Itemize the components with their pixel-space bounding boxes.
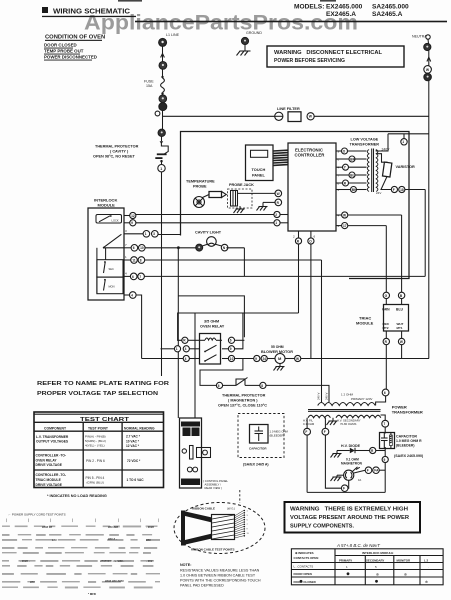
svg-text:5(GRN) - (BLU): 5(GRN) - (BLU) [85,439,106,443]
svg-text:1: 1 [247,511,249,513]
svg-text:MODULE: MODULE [98,203,116,208]
svg-text:BLU: BLU [396,308,404,312]
svg-text:SA2465.000: SA2465.000 [372,4,409,11]
svg-text:3: 3 [153,232,155,236]
svg-text:(SA/EX 2465 A): (SA/EX 2465 A) [243,463,269,467]
svg-text:RESISTANCE VALUES MEASURE LESS: RESISTANCE VALUES MEASURE LESS THAN [180,569,260,573]
svg-text:1.0 MEG OHM R: 1.0 MEG OHM R [396,439,422,443]
svg-text:7: 7 [139,275,141,279]
svg-text:10 VAC *: 10 VAC * [126,439,140,443]
svg-text:9: 9 [230,347,232,351]
svg-text:F: F [305,430,307,434]
svg-text:###: ### [146,538,151,542]
svg-text:PANEL PAD DEPRESSED: PANEL PAD DEPRESSED [180,584,224,588]
svg-text:1: 1 [176,347,178,351]
svg-text:PROBE JACK: PROBE JACK [229,183,254,187]
svg-text:(BLEEDER): (BLEEDER) [396,444,414,448]
svg-text:BLOWER MOTOR: BLOWER MOTOR [261,350,293,354]
svg-text:### # ..: ### # .. [108,537,118,541]
svg-text:4: 4 [131,293,133,297]
svg-text:· ####: · #### [146,525,154,529]
svg-text:LOW VOLTAGE: LOW VOLTAGE [351,138,379,142]
svg-text:⊕ INDICATES: ⊕ INDICATES [295,551,314,555]
svg-text:DRIVE VOLTAGE: DRIVE VOLTAGE [36,483,63,487]
svg-text:PROPER VOLTAGE TAP SELECTION: PROPER VOLTAGE TAP SELECTION [37,391,158,397]
svg-text:RIBBON CABLE TEST POINTS: RIBBON CABLE TEST POINTS [191,548,235,552]
svg-text:DOOR OPEN: DOOR OPEN [294,572,312,576]
svg-text:SEC: SEC [109,267,114,271]
svg-text:PIN 2 - PIN 6: PIN 2 - PIN 6 [86,459,105,463]
svg-text:THERMAL PROTECTOR: THERMAL PROTECTOR [95,145,139,149]
svg-text:SECONDARY: SECONDARY [366,558,384,562]
svg-text:L.V. TRANSFORMER: L.V. TRANSFORMER [36,435,69,439]
svg-text:TRANSFORMER: TRANSFORMER [350,143,380,147]
svg-text:###: ### [52,538,57,542]
svg-text:MAGNETRON: MAGNETRON [341,462,363,466]
svg-text:MT2: MT2 [383,326,389,330]
svg-text:12: 12 [131,214,135,218]
svg-text:3: 3 [125,229,127,233]
svg-text:1: 1 [346,565,348,569]
svg-text:17: 17 [343,224,347,228]
svg-text:CONTACTS OPEN: CONTACTS OPEN [294,556,319,560]
svg-text:POWER DISCONNECTED: POWER DISCONNECTED [44,55,97,60]
svg-text:9: 9 [131,221,133,225]
svg-text:70-80 OHMS: 70-80 OHMS [340,422,356,426]
svg-text:THERMAL PROTECTOR: THERMAL PROTECTOR [222,394,266,398]
svg-text:RIBBON CABLE: RIBBON CABLE [192,507,215,511]
svg-text:CAPACITOR: CAPACITOR [396,435,417,439]
svg-text:· ###: · ### [146,559,153,563]
svg-text:.: . [428,565,429,569]
svg-text:PIN(A) - PIN(B): PIN(A) - PIN(B) [85,434,106,438]
svg-text:F: F [324,430,326,434]
svg-text:MONITOR: MONITOR [397,558,412,562]
svg-text:WIRING SCHEMATIC: WIRING SCHEMATIC [53,7,131,16]
svg-text:L 2: L 2 [424,558,429,562]
svg-text:(W.G.): (W.G.) [227,507,235,511]
svg-text:DOOR CLOSED: DOOR CLOSED [44,43,77,48]
svg-text:PROBE: PROBE [193,185,207,189]
svg-text:(GRN) (BLU): (GRN) (BLU) [87,481,104,485]
svg-text:####### · ###### ·: ####### · ###### · [100,559,124,563]
svg-text:TRIAC MODULE: TRIAC MODULE [36,478,62,482]
svg-text:4: 4 [125,272,127,276]
svg-text:FA: FA [358,478,361,482]
svg-text:1 TO 6 VAC: 1 TO 6 VAC [127,478,145,482]
svg-text:FA: FA [374,469,379,473]
svg-text:GROUND: GROUND [246,31,262,35]
svg-text:* INDICATES NO LOAD READING: * INDICATES NO LOAD READING [47,494,107,498]
svg-text:2: 2 [293,235,295,239]
svg-text:2.7 VAC *: 2.7 VAC * [126,435,141,439]
svg-text:1.0 OHMS BETWEEN RIBBON CABLE: 1.0 OHMS BETWEEN RIBBON CABLE TEST [180,574,256,578]
svg-text:BR: BR [350,157,355,161]
svg-text:W: W [296,357,299,361]
svg-text:BL: BL [350,173,354,177]
svg-text:REAR VIEW ): REAR VIEW ) [205,486,222,490]
svg-text:OVEN RELAY: OVEN RELAY [200,325,225,329]
svg-text:10: 10 [140,246,144,250]
svg-text:OVEN RELAY: OVEN RELAY [36,458,58,462]
svg-text:1: 1 [125,255,127,259]
svg-text:#### ##: #### ## [42,525,53,529]
svg-text:240 V: 240 V [325,393,329,400]
svg-text:BK: BK [352,188,357,192]
svg-text:LOCK: LOCK [112,219,119,223]
svg-text:TRANSFORMER: TRANSFORMER [392,410,423,415]
svg-text:MODELS:: MODELS: [294,4,324,11]
svg-text:4: 4 [185,347,187,351]
svg-text:OUTPUT VOLTAGES: OUTPUT VOLTAGES [36,440,69,444]
svg-text:6: 6 [384,391,386,395]
svg-text:4: 4 [185,357,187,361]
svg-text:TEMPERATURE: TEMPERATURE [186,180,215,184]
svg-text:CONTROLLER -TO-: CONTROLLER -TO- [36,473,67,477]
svg-text:L1 LINE: L1 LINE [166,33,180,37]
svg-text:9: 9 [384,458,386,462]
svg-text:EX2465.A: EX2465.A [326,11,356,18]
svg-text:F: F [367,469,369,473]
svg-text:(SA/EX 2465.090): (SA/EX 2465.090) [394,454,424,458]
svg-text:###: ### [30,580,35,584]
svg-text:11: 11 [247,533,250,535]
svg-text:EX2465.000: EX2465.000 [326,4,363,11]
svg-text:PIN 5 - PIN 4: PIN 5 - PIN 4 [86,476,105,480]
svg-text:NOTE:: NOTE: [180,563,191,567]
svg-text:CONDITION OF OVEN: CONDITION OF OVEN [45,35,105,41]
svg-text:7: 7 [384,422,386,426]
svg-text:SUPPLY COMPONENTS.: SUPPLY COMPONENTS. [290,524,355,530]
svg-text:W: W [400,340,403,344]
svg-text:#### ### ####: #### ### #### [105,579,124,583]
svg-text:* MFD: * MFD [88,592,96,596]
svg-text:5: 5 [247,520,249,522]
svg-text:CONTROLLER -TO-: CONTROLLER -TO- [36,454,67,458]
svg-text:(BLEEDER): (BLEEDER) [270,433,285,437]
svg-text:⊕: ⊕ [376,573,379,577]
svg-text:POINTS WITH THE CORRESPONDING: POINTS WITH THE CORRESPONDING TOUCH [180,579,261,583]
svg-text:F: F [343,487,345,491]
svg-text:6: 6 [230,339,232,343]
svg-text:VOLTAGE PRESENT AROUND THE POW: VOLTAGE PRESENT AROUND THE POWER [290,515,409,521]
svg-text:1: 1 [145,232,147,236]
svg-text:DOOR CLOSED: DOOR CLOSED [294,580,317,584]
svg-text:0.1 OHM: 0.1 OHM [303,422,315,426]
svg-text:OPEN 137°C, CLOSE 110°C: OPEN 137°C, CLOSE 110°C [218,404,267,408]
svg-text:GRN: GRN [382,308,390,312]
svg-text:SA2465.A: SA2465.A [372,11,403,18]
svg-text:9: 9 [255,357,257,361]
svg-text:( CAVITY ): ( CAVITY ) [110,150,129,154]
svg-text:TEMP PROBE OUT: TEMP PROBE OUT [44,49,84,54]
svg-text:9: 9 [247,529,249,531]
svg-text:24: 24 [263,357,267,361]
svg-text:6: 6 [133,246,135,250]
svg-text:POWER BEFORE SERVICING: POWER BEFORE SERVICING [274,58,345,64]
svg-text:COMPONENT: COMPONENT [44,426,67,430]
svg-text:PRIMARY 120V: PRIMARY 120V [351,397,372,401]
svg-text:24V: 24V [376,191,381,195]
svg-text:W: W [343,213,346,217]
svg-text:PANEL: PANEL [252,173,266,178]
svg-text:240 V: 240 V [317,393,321,400]
svg-text:8: 8 [140,258,142,262]
svg-text:CONTROLLER: CONTROLLER [295,153,326,158]
svg-text:H.V. DIODE: H.V. DIODE [341,444,361,448]
svg-text:3/5 OHM: 3/5 OHM [204,320,219,324]
svg-text:WARNING DISCONNECT ELECTRICA: WARNING DISCONNECT ELECTRICAL [274,50,383,56]
svg-text:CAPACITOR: CAPACITOR [249,447,267,451]
svg-text:NORMAL READING: NORMAL READING [124,426,155,430]
svg-text:6: 6 [314,235,316,239]
svg-text:11: 11 [132,258,136,262]
svg-text:A 57+.8 B.C. de NøνT: A 57+.8 B.C. de NøνT [336,543,380,548]
svg-text:TEST POINT: TEST POINT [88,426,109,430]
svg-text:2: 2 [275,213,277,217]
svg-text:PRIMARY: PRIMARY [339,558,352,562]
svg-text:7: 7 [125,243,127,247]
svg-text:6: 6 [132,275,134,279]
svg-text:7: 7 [247,524,249,526]
svg-text:⊕: ⊕ [425,580,428,584]
svg-text:· #### ·: · #### · [20,559,30,563]
svg-text:⊕: ⊕ [404,573,407,577]
svg-text:W: W [277,192,280,196]
svg-text:8: 8 [261,384,263,388]
svg-text:### ###: ### ### [108,525,119,529]
svg-text:INTERLOCK MODULE: INTERLOCK MODULE [362,551,393,555]
svg-text:CAVITY LIGHT: CAVITY LIGHT [195,231,222,235]
svg-text:10: 10 [230,357,234,361]
svg-text:REFER TO NAME PLATE RATING FOR: REFER TO NAME PLATE RATING FOR [37,381,170,387]
svg-text:1: 1 [160,167,162,171]
svg-text:← POWER SUPPLY CORD TEST POINT: ← POWER SUPPLY CORD TEST POINTS [8,513,66,517]
svg-text:DRIVE VOLTAGE: DRIVE VOLTAGE [36,463,63,467]
svg-text:VARISTOR: VARISTOR [396,165,416,169]
svg-text:6: 6 [218,384,220,388]
svg-text:5: 5 [375,565,377,569]
svg-text:LINE FILTER: LINE FILTER [277,107,300,111]
svg-text:15A: 15A [146,84,153,88]
svg-text:MON: MON [109,285,115,289]
svg-text:72 VDC *: 72 VDC * [127,459,141,463]
svg-text:L...CONTACTS: L...CONTACTS [294,565,314,569]
svg-text:WARNING THERE IS EXTREMELY H: WARNING THERE IS EXTREMELY HIGH [290,507,408,513]
svg-text:55 OHM: 55 OHM [271,345,284,349]
svg-text:MT1: MT1 [397,326,403,330]
svg-text:OPEN 98°C, NO RESET: OPEN 98°C, NO RESET [93,155,135,159]
svg-text:FUSE: FUSE [144,80,154,84]
svg-text:( MAGNETRON ): ( MAGNETRON ) [228,399,258,403]
svg-text:1: 1 [275,221,277,225]
svg-text:F: F [393,188,395,192]
svg-text:3: 3 [247,515,249,517]
svg-text:4(YEL) - (YEL): 4(YEL) - (YEL) [85,444,105,448]
svg-text:1: 1 [402,140,404,144]
svg-text:12 VAC *: 12 VAC * [126,444,140,448]
svg-text:MODULE: MODULE [356,321,374,326]
svg-text:TOUCH: TOUCH [252,167,266,172]
svg-text:18: 18 [400,188,404,192]
